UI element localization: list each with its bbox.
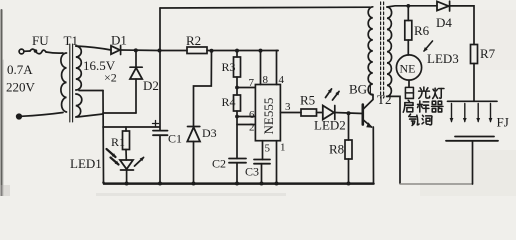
svg-text:2: 2	[249, 122, 255, 134]
svg-text:C1: C1	[168, 132, 182, 146]
wire R3-R4	[236, 77, 238, 95]
wire R4 down to C2	[236, 111, 238, 159]
node dot	[235, 182, 239, 186]
wire	[21, 113, 63, 117]
FJ arrows	[452, 104, 491, 122]
neon bulb NE	[396, 55, 421, 80]
node dot pin6 tap	[235, 115, 239, 119]
svg-text:R4: R4	[222, 95, 236, 109]
wire T2 secondary bottom to left drop	[387, 96, 400, 183]
wire D4 to corner	[450, 6, 474, 45]
wire D3 branch dogleg	[194, 51, 212, 126]
wire winding bottom link	[77, 114, 103, 117]
resistor R6	[406, 4, 410, 8]
LED LED2	[323, 106, 334, 120]
terminal bottom-left (mains input)	[17, 114, 22, 119]
svg-text:8: 8	[263, 74, 269, 86]
svg-text:FU: FU	[32, 33, 49, 48]
pin 6 stub	[237, 116, 255, 118]
svg-text:×2: ×2	[104, 71, 117, 85]
svg-text:6: 6	[249, 109, 255, 121]
pin 8	[260, 51, 262, 85]
node dot	[210, 49, 214, 53]
svg-text:4: 4	[279, 74, 285, 86]
label neon bulb (Chinese) 氖泡	[409, 114, 432, 125]
terminal top-left (mains input)	[19, 49, 24, 54]
label fluorescent lamp (Chinese) 日光灯	[405, 87, 444, 99]
svg-text:D2: D2	[143, 78, 159, 93]
resistor R4	[234, 95, 241, 111]
wire secondary top to D1	[76, 46, 111, 50]
wire top bus vertical	[159, 8, 161, 51]
svg-text:R6: R6	[414, 23, 430, 38]
bottom bus	[104, 183, 374, 184]
node dot	[275, 182, 279, 186]
svg-text:5: 5	[265, 143, 271, 155]
resistor R8	[348, 113, 350, 140]
photocell plate upper	[455, 136, 494, 138]
T2 secondary coil	[387, 7, 392, 96]
fuse FU	[30, 49, 46, 54]
svg-text:LED1: LED1	[70, 156, 102, 171]
svg-text:D1: D1	[111, 33, 127, 48]
svg-text:T2: T2	[377, 92, 391, 107]
pin 1	[276, 141, 278, 184]
LED2 arrows	[326, 89, 332, 98]
svg-text:1: 1	[280, 142, 286, 154]
diode D1	[111, 46, 120, 54]
pin 4	[277, 51, 279, 85]
node dot	[134, 48, 138, 52]
svg-text:C2: C2	[212, 157, 226, 171]
pin 7 stub	[237, 87, 255, 89]
diode D2	[135, 50, 137, 67]
node dot	[259, 49, 263, 53]
transformer T2 primary coil	[368, 7, 373, 95]
svg-text:D4: D4	[436, 15, 452, 30]
LED1 arrows	[107, 149, 116, 157]
svg-text:C3: C3	[245, 165, 259, 179]
wire fuse to T1 primary	[46, 52, 63, 53]
C1 plus	[153, 121, 159, 127]
wire	[24, 50, 30, 52]
svg-text:R5: R5	[300, 93, 315, 108]
svg-text:LED3: LED3	[427, 51, 459, 66]
scan edge artifact left	[1, 10, 3, 196]
svg-text:R1: R1	[111, 135, 125, 149]
wire top bus	[160, 6, 370, 9]
svg-text:R2: R2	[186, 33, 201, 48]
node dot base/R8	[347, 111, 351, 115]
T1 secondary lower winding	[76, 94, 82, 117]
node dot	[347, 182, 351, 186]
photocell plate lower	[446, 140, 498, 142]
svg-text:R8: R8	[329, 142, 344, 157]
diode D4	[437, 1, 449, 10]
op-amp/timer U1 NE555 box	[255, 85, 280, 141]
T2 core dashed	[380, 2, 382, 98]
svg-text:LED2: LED2	[314, 118, 346, 133]
pin 5	[262, 141, 264, 160]
wire T2 secondary top to D4	[387, 6, 437, 7]
node line (R1/C1 top)	[103, 126, 160, 128]
photocell FJ top bar	[448, 100, 498, 102]
node dot	[235, 49, 239, 53]
transistor Q1 BG1	[361, 105, 364, 125]
diode D3	[188, 126, 200, 128]
label starter (Chinese) 启辉器	[403, 100, 443, 112]
svg-text:R7: R7	[480, 46, 496, 61]
resistor R2	[160, 50, 188, 52]
svg-text:R3: R3	[222, 60, 236, 74]
pin 2 stub	[237, 124, 255, 126]
wire long vertical to bottom bus	[102, 91, 105, 183]
node dot	[125, 182, 129, 186]
capacitor C3	[254, 159, 270, 161]
svg-text:7: 7	[249, 77, 255, 89]
LED LED1	[120, 160, 133, 169]
node dot	[158, 49, 162, 53]
wire secondary lower to D2 (horizontal)	[103, 112, 136, 114]
LED3 callout arrow	[424, 41, 433, 51]
node dot	[158, 182, 162, 186]
T1 secondary upper winding	[76, 46, 82, 90]
resistor R5	[301, 109, 317, 116]
wire D1 to node	[121, 49, 160, 52]
svg-text:3: 3	[285, 101, 291, 113]
svg-text:FJ: FJ	[497, 115, 509, 130]
node dot	[192, 182, 196, 186]
wire center tap stub	[79, 90, 103, 92]
svg-text:0.7A: 0.7A	[7, 62, 33, 77]
resistor R3 chain top	[236, 51, 238, 57]
node dot	[260, 182, 264, 186]
node dot pin7 tap	[235, 86, 239, 90]
wire plate stem	[472, 141, 474, 184]
svg-text:NE555: NE555	[261, 98, 276, 135]
svg-text:NE: NE	[400, 62, 416, 76]
transformer T1 primary coil	[61, 53, 67, 112]
svg-text:220V: 220V	[6, 80, 36, 95]
resistor R1	[123, 131, 130, 150]
pin 3	[280, 112, 301, 114]
resistor R7	[471, 45, 478, 64]
svg-text:D3: D3	[202, 126, 217, 140]
T1 core	[69, 44, 71, 122]
capacitor C1	[159, 51, 161, 131]
capacitor C2	[229, 158, 246, 160]
